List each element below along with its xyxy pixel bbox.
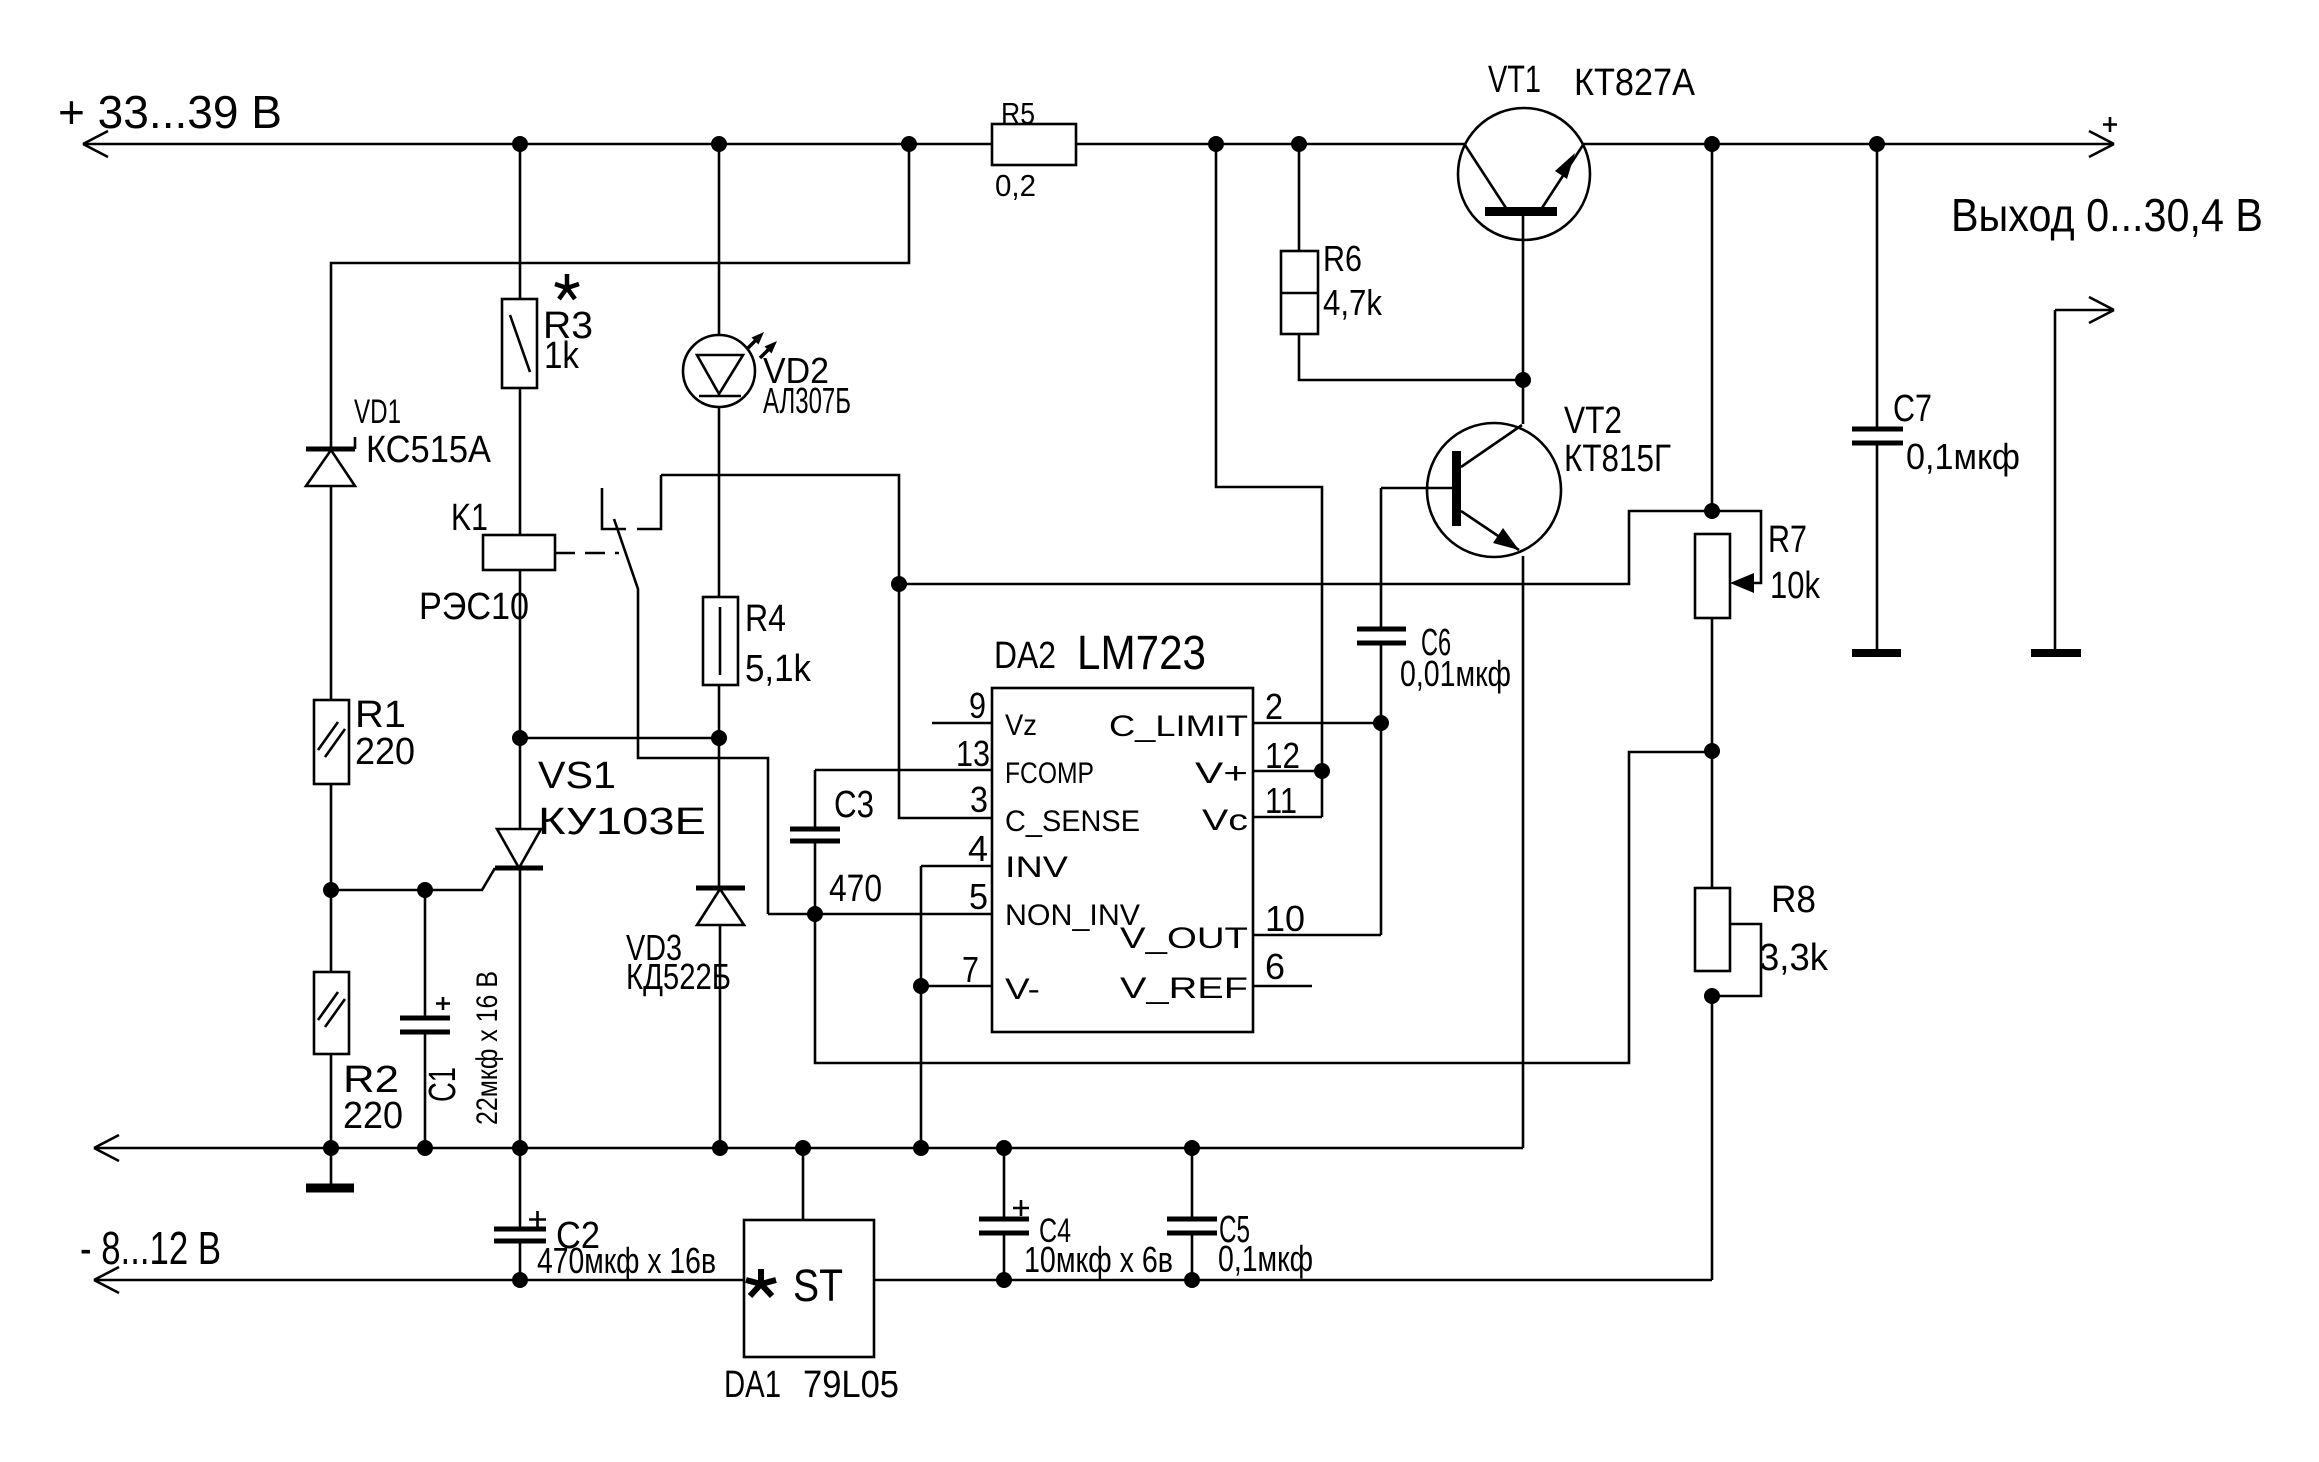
junction ground rail / VD3 bbox=[712, 1140, 728, 1156]
capacitor C5 0,1uF bbox=[1167, 1148, 1313, 1280]
resistor R2 220 bbox=[314, 972, 403, 1148]
junction VT1 base / R6 / VT2 collector bbox=[1515, 372, 1531, 388]
junction lower rail / C2 bbox=[512, 1272, 528, 1288]
svg-text:V-: V- bbox=[1005, 973, 1040, 1006]
pin 6 V_REF stub bbox=[1120, 946, 1312, 1005]
svg-text:КТ827А: КТ827А bbox=[1574, 62, 1696, 104]
ground rail with arrow bbox=[94, 1135, 1523, 1161]
svg-text:K1: K1 bbox=[451, 497, 488, 539]
svg-text:V_OUT: V_OUT bbox=[1120, 922, 1248, 955]
capacitor C7 0,1uF bbox=[1852, 144, 2020, 653]
pin 5 NON_INV label bbox=[969, 876, 1140, 932]
wire NON_INV node to divider tap bbox=[815, 752, 1712, 1063]
pin 2 C_LIMIT bbox=[1109, 686, 1381, 743]
svg-text:РЭС10: РЭС10 bbox=[419, 586, 529, 628]
svg-text:0,1мкф: 0,1мкф bbox=[1906, 436, 2020, 477]
svg-text:220: 220 bbox=[343, 1095, 403, 1137]
svg-text:0,2: 0,2 bbox=[995, 168, 1036, 203]
wire C_SENSE node to R7 top bbox=[899, 511, 1712, 584]
svg-text:Vc: Vc bbox=[1202, 804, 1248, 837]
wire top rail middle segment bbox=[1076, 143, 1465, 146]
relay contact switch bbox=[602, 475, 768, 914]
junction top rail / VD1 branch bbox=[901, 136, 917, 152]
transistor VT2 КТ815Г bbox=[1427, 380, 1671, 1148]
node +33...39 V input label bbox=[58, 86, 282, 138]
junction top rail / R6 bbox=[1291, 136, 1307, 152]
junction lower rail / C5 bbox=[1184, 1272, 1200, 1288]
junction C6 / C_LIMIT / V_OUT bbox=[1373, 715, 1389, 731]
junction top rail / C7 bbox=[1869, 136, 1885, 152]
svg-text:VT1: VT1 bbox=[1488, 59, 1541, 101]
svg-text:C7: C7 bbox=[1893, 388, 1932, 430]
voltage regulator DA1 79L05 bbox=[724, 1148, 899, 1406]
wire relay coil to VS1 bbox=[519, 570, 522, 738]
svg-text:10k: 10k bbox=[1770, 565, 1821, 607]
junction top rail / R7 bbox=[1704, 136, 1720, 152]
junction ground rail / DA1 bbox=[795, 1140, 811, 1156]
wire C_LIMIT node to V_OUT pin bbox=[1380, 723, 1383, 935]
svg-text:470: 470 bbox=[829, 868, 882, 910]
wire C_SENSE node to pin 3 bbox=[899, 584, 992, 818]
wire NON_INV pin 5 bbox=[768, 913, 992, 916]
wire VT2 base bbox=[1381, 487, 1452, 490]
svg-text:4,7k: 4,7k bbox=[1323, 282, 1383, 323]
potentiometer R7 10k bbox=[1695, 144, 1821, 751]
svg-text:C1: C1 bbox=[422, 1067, 464, 1102]
transistor VT1 КТ827А bbox=[1458, 59, 1696, 380]
junction lower rail / C4 bbox=[996, 1272, 1012, 1288]
dashed link relay to contact bbox=[555, 552, 619, 555]
svg-text:DA2: DA2 bbox=[994, 635, 1056, 677]
svg-text:470мкф х 16в: 470мкф х 16в bbox=[537, 1240, 716, 1281]
svg-text:C_SENSE: C_SENSE bbox=[1005, 805, 1140, 838]
svg-text:R4: R4 bbox=[745, 598, 786, 640]
svg-text:11: 11 bbox=[1265, 780, 1297, 821]
svg-text:DA1: DA1 bbox=[724, 1364, 781, 1406]
svg-text:3,3k: 3,3k bbox=[1759, 937, 1829, 979]
junction ground rail / C1 bbox=[417, 1140, 433, 1156]
pin 4 INV bbox=[921, 828, 1068, 986]
junction ground rail / R2 bbox=[323, 1140, 339, 1156]
junction ground rail / C5 bbox=[1184, 1140, 1200, 1156]
thyristor VS1 КУ103Е bbox=[495, 738, 706, 1148]
svg-text:R8: R8 bbox=[1771, 879, 1816, 921]
zener diode VD1 KC515A bbox=[306, 393, 492, 700]
junction C_SENSE node bbox=[891, 576, 907, 592]
svg-text:220: 220 bbox=[355, 731, 415, 773]
junction R4 bottom bbox=[711, 730, 727, 746]
pin 7 V- bbox=[913, 949, 1040, 1148]
wire VD1 branch from top rail bbox=[331, 144, 909, 447]
svg-text:5,1k: 5,1k bbox=[745, 648, 812, 690]
svg-text:22мкф х 16 В: 22мкф х 16 В bbox=[471, 971, 504, 1125]
capacitor C1 22uF bbox=[400, 890, 504, 1148]
svg-text:R1: R1 bbox=[355, 694, 406, 736]
svg-text:ST: ST bbox=[793, 1260, 843, 1311]
svg-text:6: 6 bbox=[1265, 946, 1285, 987]
pin 12 V+ bbox=[1195, 735, 1322, 790]
diode VD3 КД522Б bbox=[626, 888, 745, 1148]
capacitor C2 470uF bbox=[494, 1148, 716, 1281]
svg-text:КД522Б: КД522Б bbox=[626, 956, 731, 997]
svg-text:0,01мкф: 0,01мкф bbox=[1400, 653, 1511, 694]
svg-text:R6: R6 bbox=[1323, 238, 1362, 279]
wire switch top to C_SENSE branch bbox=[661, 475, 899, 584]
junction top rail / R3 bbox=[512, 136, 528, 152]
wire top rail right segment with output arrow bbox=[1583, 117, 2117, 157]
svg-text:1k: 1k bbox=[544, 335, 580, 377]
resistor R5 0,2 bbox=[992, 96, 1076, 203]
svg-text:C3: C3 bbox=[834, 784, 874, 826]
resistor R4 5,1k bbox=[703, 597, 812, 738]
junction ground rail / V- line bbox=[913, 1140, 929, 1156]
junction V+ pin 12 bbox=[1314, 763, 1330, 779]
pin 13 FCOMP label bbox=[956, 733, 1094, 790]
wire R3 to relay K1 bbox=[519, 388, 522, 535]
svg-text:12: 12 bbox=[1265, 735, 1300, 776]
svg-text:13: 13 bbox=[956, 733, 990, 774]
wire top rail left segment with input arrow bbox=[83, 131, 992, 157]
svg-text:V+: V+ bbox=[1195, 757, 1248, 790]
wire R8 bottom to lower rail bbox=[1711, 996, 1714, 1280]
wire V+ branch from top rail bbox=[1216, 144, 1322, 771]
svg-text:10мкф х 6в: 10мкф х 6в bbox=[1024, 1239, 1173, 1280]
svg-text:4: 4 bbox=[968, 828, 988, 869]
svg-text:КУ103Е: КУ103Е bbox=[538, 801, 706, 843]
resistor R3 1k bbox=[502, 144, 593, 388]
svg-text:КТ815Г: КТ815Г bbox=[1564, 438, 1671, 480]
junction R7 top bbox=[1704, 503, 1720, 519]
wire thyristor gate bbox=[331, 868, 495, 890]
asterisk mark near R3 bbox=[555, 274, 579, 299]
svg-text:C_LIMIT: C_LIMIT bbox=[1109, 710, 1248, 743]
capacitor C6 0,01uF bbox=[1357, 488, 1511, 723]
LED VD2 АЛ307Б bbox=[683, 144, 851, 421]
svg-text:VS1: VS1 bbox=[538, 755, 616, 797]
svg-text:VD1: VD1 bbox=[354, 393, 401, 431]
junction top rail / V+ branch bbox=[1208, 136, 1224, 152]
pin 9 Vz stub bbox=[932, 685, 1037, 742]
junction NON_INV node bbox=[807, 906, 823, 922]
svg-text:FCOMP: FCOMP bbox=[1005, 757, 1094, 790]
pin 3 C_SENSE label bbox=[970, 779, 1140, 838]
junction R1 / gate wire bbox=[323, 882, 339, 898]
junction relay line / R4 bottom wire bbox=[512, 730, 528, 746]
svg-text:R7: R7 bbox=[1768, 519, 1807, 561]
svg-text:АЛ307Б: АЛ307Б bbox=[763, 380, 851, 421]
junction R8 bottom / tap bbox=[1704, 988, 1720, 1004]
wire LED to R4 bbox=[718, 407, 721, 597]
svg-text:0,1мкф: 0,1мкф bbox=[1218, 1238, 1313, 1279]
junction ground rail / C4 bbox=[996, 1140, 1012, 1156]
junction top rail / VD2 bbox=[711, 136, 727, 152]
junction ground rail / VS1-C2 bbox=[512, 1140, 528, 1156]
svg-text:2: 2 bbox=[1265, 686, 1283, 727]
output second terminal with arrow and ground bar bbox=[2031, 297, 2114, 653]
resistor R8 3,3k adjustable bbox=[1695, 751, 1829, 996]
svg-text:LM723: LM723 bbox=[1077, 627, 1206, 680]
svg-text:7: 7 bbox=[962, 949, 979, 990]
capacitor C4 10uF bbox=[979, 1148, 1173, 1280]
svg-text:Выход 0...30,4 В: Выход 0...30,4 В bbox=[1951, 189, 2263, 241]
wire V+ to Vc pin 11 bbox=[1321, 771, 1324, 817]
svg-text:10: 10 bbox=[1265, 898, 1305, 939]
wire VS1 anode to R4 bottom bbox=[520, 737, 719, 740]
IC DA2 LM723 bbox=[992, 627, 1253, 1032]
lower rail with arrow bbox=[94, 1267, 1712, 1293]
svg-text:79L05: 79L05 bbox=[803, 1364, 899, 1406]
wire R4 to VD3 bbox=[718, 738, 721, 888]
pin 10 V_OUT bbox=[1120, 898, 1381, 955]
capacitor C3 470 bbox=[790, 770, 882, 914]
svg-text:+ 33...39 В: + 33...39 В bbox=[58, 86, 282, 138]
relay coil K1 РЭС10 bbox=[419, 497, 555, 628]
svg-text:- 8...12 В: - 8...12 В bbox=[80, 1222, 221, 1274]
svg-text:3: 3 bbox=[970, 779, 988, 820]
junction R7/R8 divider tap bbox=[1704, 743, 1720, 759]
wire R1 to R2 bbox=[330, 890, 333, 972]
svg-text:КС515А: КС515А bbox=[366, 429, 492, 471]
svg-text:9: 9 bbox=[969, 685, 986, 726]
ground symbol below R2 bbox=[306, 1148, 354, 1188]
resistor R6 4,7k bbox=[1281, 144, 1523, 380]
svg-text:INV: INV bbox=[1005, 851, 1068, 884]
junction gate wire / C1 bbox=[417, 882, 433, 898]
svg-text:R5: R5 bbox=[1001, 96, 1035, 131]
pin 11 Vc bbox=[1202, 780, 1322, 837]
svg-text:VT2: VT2 bbox=[1564, 400, 1622, 442]
svg-text:V_REF: V_REF bbox=[1120, 972, 1248, 1005]
wire FCOMP pin 13 bbox=[815, 769, 992, 772]
resistor R1 220 bbox=[314, 694, 415, 890]
svg-text:5: 5 bbox=[969, 876, 988, 917]
svg-text:Vz: Vz bbox=[1005, 709, 1037, 742]
